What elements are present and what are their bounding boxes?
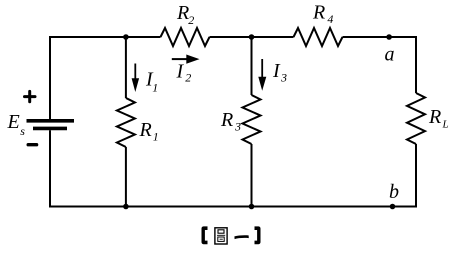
svg-text:2: 2 xyxy=(185,70,191,84)
wire: R3 branch upper xyxy=(251,37,253,95)
wire: top-left segment xyxy=(49,36,161,38)
caption character yi (one) xyxy=(234,235,248,239)
caption left lenticular bracket xyxy=(202,226,208,244)
battery E_s top plate xyxy=(27,119,75,123)
current arrow I1 xyxy=(134,64,136,80)
node a dot xyxy=(386,34,392,40)
svg-text:I: I xyxy=(272,60,281,82)
wire: R1 branch lower xyxy=(125,147,127,207)
svg-text:L: L xyxy=(442,118,449,130)
current arrow I2 xyxy=(172,58,188,60)
node junction R1 bottom xyxy=(123,204,129,210)
svg-text:1: 1 xyxy=(152,81,158,95)
svg-text:1: 1 xyxy=(153,130,159,144)
svg-text:3: 3 xyxy=(234,120,241,134)
wire: right vertical upper xyxy=(415,36,417,93)
battery E_s bottom plate xyxy=(33,127,67,131)
resistor R4 zigzag xyxy=(294,28,343,46)
caption character tu (figure) xyxy=(215,228,227,244)
resistor RL zigzag xyxy=(407,93,425,144)
wire: top-middle segment xyxy=(210,36,294,38)
svg-text:I: I xyxy=(176,61,185,83)
svg-text:b: b xyxy=(389,181,399,203)
current arrow I3 xyxy=(261,59,263,78)
battery minus sign xyxy=(28,143,36,146)
svg-text:a: a xyxy=(385,44,395,66)
svg-text:3: 3 xyxy=(280,71,287,85)
resistor R1 zigzag xyxy=(117,98,135,147)
svg-text:R: R xyxy=(312,2,325,24)
wire: bottom segment xyxy=(49,206,417,208)
wire: R1 branch upper xyxy=(125,37,127,98)
wire: right vertical lower xyxy=(415,144,417,208)
svg-text:E: E xyxy=(7,111,20,133)
node b dot xyxy=(390,204,396,210)
svg-text:R: R xyxy=(139,119,152,141)
svg-text:R: R xyxy=(220,109,233,131)
node junction R1 top xyxy=(123,34,129,40)
svg-text:s: s xyxy=(20,124,25,138)
wire: left vertical upper (battery top to top-left corner) xyxy=(49,36,51,207)
battery plus sign xyxy=(25,91,36,101)
caption right lenticular bracket xyxy=(255,226,261,244)
svg-text:2: 2 xyxy=(188,13,194,27)
node junction R3 top xyxy=(249,34,255,40)
svg-text:4: 4 xyxy=(327,12,333,26)
svg-text:R: R xyxy=(428,106,441,128)
wire: top-right segment to corner xyxy=(343,36,418,38)
resistor R2 zigzag xyxy=(161,28,210,46)
wire: R3 branch lower xyxy=(251,144,253,207)
node junction R3 bottom xyxy=(249,204,255,210)
resistor R3 zigzag xyxy=(243,95,261,144)
